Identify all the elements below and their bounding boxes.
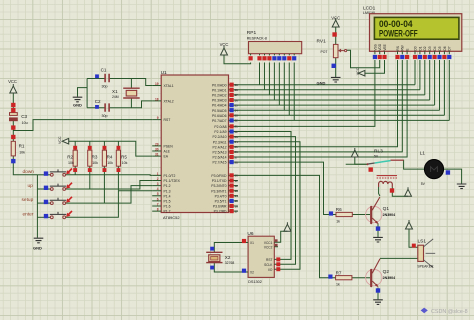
svg-text:LS1: LS1 (418, 239, 427, 245)
svg-text:7: 7 (157, 202, 159, 206)
svg-text:15: 15 (235, 199, 239, 203)
svg-text:VCC: VCC (220, 42, 229, 47)
svg-text:CSDN @slce-8: CSDN @slce-8 (431, 309, 468, 315)
svg-text:16: 16 (235, 204, 239, 208)
svg-text:P1.3: P1.3 (164, 189, 171, 193)
svg-text:POWER-OFF: POWER-OFF (379, 29, 418, 39)
wire: XTAL1 net (87, 78, 105, 80)
node squares on reset rail (11, 103, 15, 107)
svg-text:10k: 10k (19, 150, 25, 154)
svg-text:P0.0/AD0: P0.0/AD0 (212, 83, 227, 87)
svg-text:RP1: RP1 (247, 30, 257, 36)
wire: R7 to Q2 base (352, 277, 370, 279)
wire: P0/LCD data bus rows (238, 84, 415, 86)
Q1 emitter node square (376, 226, 380, 230)
svg-text:VCC1: VCC1 (264, 241, 273, 245)
watermark (421, 308, 468, 315)
svg-text:29: 29 (155, 142, 159, 146)
svg-text:XTAL1: XTAL1 (164, 84, 174, 88)
wire: R5 bottom to enter row (117, 166, 119, 191)
wire: VCC terminal to pull-up rail and EA pin (69, 141, 153, 156)
svg-text:VCC: VCC (331, 16, 340, 21)
L1 node square (446, 170, 450, 174)
svg-text:P3.6/WR: P3.6/WR (213, 205, 227, 209)
svg-text:10k: 10k (68, 161, 74, 165)
svg-text:10u: 10u (22, 121, 28, 125)
wire: crystal X1 legs (130, 79, 132, 89)
svg-text:RW: RW (401, 45, 405, 50)
U1 right pin stubs (229, 85, 238, 211)
resistor R6 (336, 207, 353, 223)
svg-text:down: down (23, 169, 35, 175)
wire: relay coil right to VCC (392, 187, 408, 196)
VCC (RP1) (221, 46, 228, 55)
svg-text:VCC: VCC (356, 67, 360, 75)
svg-text:P2.4/A12: P2.4/A12 (213, 145, 227, 149)
U1 left pin stubs (152, 86, 161, 212)
svg-text:C2: C2 (95, 99, 101, 104)
wire: R1 bottom to button ground rail (13, 156, 37, 175)
svg-text:P2.1/A9: P2.1/A9 (214, 130, 226, 134)
LCD pin stubs and state squares (375, 51, 449, 54)
svg-text:39: 39 (235, 83, 239, 87)
svg-text:RV1: RV1 (317, 39, 327, 45)
svg-text:D0: D0 (413, 46, 417, 50)
svg-text:4: 4 (157, 187, 159, 191)
U6 pin stubs (242, 242, 281, 272)
svg-text:2: 2 (157, 177, 159, 181)
R7 node square (328, 275, 332, 279)
wire: up button to P1.1 (66, 181, 153, 190)
VCC (relay coil) (405, 187, 412, 196)
svg-text:27: 27 (235, 155, 239, 159)
svg-text:P2.7/A15: P2.7/A15 (213, 161, 227, 165)
svg-text:X1: X1 (112, 89, 118, 94)
svg-text:VEE: VEE (383, 44, 387, 50)
svg-text:D2: D2 (423, 46, 427, 50)
potentiometer RV1 (317, 39, 347, 58)
resistor R3 (88, 150, 92, 166)
svg-text:X2: X2 (225, 255, 231, 260)
wire: LCD VEE to VCC terminal (365, 60, 385, 73)
ground (oscillator) (73, 97, 83, 102)
VCC (relay switch) (351, 148, 358, 157)
U6 pin squares (242, 239, 246, 243)
crystal X2 32768Hz (206, 252, 234, 264)
resistor R5 (116, 150, 120, 166)
svg-text:X2: X2 (250, 271, 254, 275)
svg-text:enter: enter (23, 211, 34, 217)
svg-text:10k: 10k (107, 161, 113, 165)
svg-text:5V: 5V (374, 155, 379, 159)
button "down" (SW1) (23, 169, 73, 177)
svg-text:P0.2/AD2: P0.2/AD2 (212, 94, 227, 98)
svg-text:24M: 24M (112, 95, 119, 99)
capacitor C1 (101, 68, 110, 89)
wire: L1 right to ground (444, 169, 462, 184)
wire: setup button to P1.2 (66, 186, 153, 204)
button "enter" (SW4) (23, 211, 73, 219)
svg-text:31: 31 (155, 153, 159, 157)
wire: speaker bottom to Q2 collector (380, 257, 418, 259)
svg-text:26: 26 (235, 150, 239, 154)
resistor R7 (336, 270, 352, 286)
wire: relay VCC to switch common (355, 157, 367, 164)
svg-text:RST: RST (266, 258, 272, 262)
wire: X2 crystal to DS1302 X1/X2 pins (214, 243, 249, 253)
svg-text:D6: D6 (443, 46, 447, 50)
VCC (reset circuit) (10, 84, 17, 93)
ground (buttons) (34, 238, 44, 243)
svg-text:D3: D3 (428, 46, 432, 50)
svg-text:EA: EA (164, 155, 169, 159)
wire: RV1 top to VCC (335, 27, 337, 44)
svg-text:P0.1/AD1: P0.1/AD1 (212, 88, 227, 92)
svg-text:P1.0/T2: P1.0/T2 (164, 174, 176, 178)
svg-text:VCC2: VCC2 (264, 246, 273, 250)
wire: down button to P1.0 (66, 174, 153, 177)
svg-text:VDD: VDD (378, 43, 382, 50)
svg-text:30: 30 (155, 147, 159, 151)
svg-text:10k: 10k (92, 161, 98, 165)
svg-text:POT: POT (321, 50, 328, 54)
svg-text:R6: R6 (336, 207, 342, 212)
svg-text:DS1302: DS1302 (248, 280, 262, 284)
transistor Q1 2N3904 (366, 197, 396, 224)
svg-text:P0.7/AD7: P0.7/AD7 (212, 119, 227, 123)
wire: speaker VCC feed (409, 229, 418, 247)
lcd LCD1 LM016L (363, 6, 462, 52)
wire: P3.0 to R7 (speaker driver) (238, 175, 336, 277)
wire: R3 bottom to up row (89, 166, 91, 189)
resistor R1 (11, 141, 25, 156)
svg-text:37: 37 (235, 93, 239, 97)
svg-text:P0.4/AD4: P0.4/AD4 (212, 104, 227, 108)
wire: RST net from R1 top to U1 RST pin (13, 120, 152, 131)
VCC (DS1302) (284, 222, 291, 231)
wire: ground stubs to buttons (37, 174, 50, 176)
wire: Q2 emitter to ground (377, 288, 379, 300)
svg-text:9: 9 (157, 116, 159, 120)
svg-text:25: 25 (235, 145, 239, 149)
svg-text:18: 18 (155, 97, 159, 101)
svg-text:17: 17 (235, 209, 239, 213)
svg-text:RS: RS (396, 46, 400, 50)
svg-text:P1.4: P1.4 (164, 194, 171, 198)
wire: C3 to R1 (12, 121, 14, 142)
wire: LCD VSS down to P2.0 row (238, 60, 375, 126)
svg-text:XTAL2: XTAL2 (164, 100, 174, 104)
wire: RP1 pin drops to data bus (259, 63, 261, 85)
VCC (speaker) (406, 220, 413, 229)
svg-text:GND: GND (73, 103, 82, 108)
svg-text:ALE: ALE (164, 150, 171, 154)
X2 node squares (210, 247, 214, 251)
relay RL3 (346, 149, 404, 188)
svg-text:1k: 1k (336, 282, 340, 286)
svg-text:P1.2: P1.2 (164, 184, 171, 188)
svg-text:AT89C52: AT89C52 (163, 215, 180, 220)
svg-text:5V: 5V (421, 182, 426, 186)
RL3 node squares (369, 167, 373, 171)
ground (Q2) (373, 300, 383, 305)
resistor R4 (102, 150, 106, 166)
R6 node square (329, 211, 333, 215)
svg-text:up: up (28, 184, 34, 189)
svg-text:13: 13 (235, 189, 239, 193)
svg-text:24: 24 (235, 140, 239, 144)
svg-text:P3.5/T1: P3.5/T1 (215, 200, 227, 204)
svg-text:2N3904: 2N3904 (383, 276, 396, 280)
svg-text:32: 32 (235, 119, 239, 123)
svg-text:C3: C3 (21, 114, 27, 119)
wire: enter button to P1.3 (66, 191, 119, 218)
node square C2 (95, 105, 99, 109)
svg-text:36: 36 (235, 98, 239, 102)
svg-text:10: 10 (235, 174, 239, 178)
wire: rail branch to ground (78, 88, 88, 97)
svg-text:R3: R3 (92, 155, 98, 160)
svg-text:X1: X1 (250, 241, 254, 245)
svg-text:P2.2/A10: P2.2/A10 (213, 135, 227, 139)
svg-text:P2.5/A13: P2.5/A13 (213, 151, 227, 155)
svg-text:Q2: Q2 (383, 269, 390, 275)
VCC terminal (pull-up rail) (62, 138, 68, 144)
svg-text:RST: RST (164, 118, 171, 122)
wire: oscillator rail C1/C2 left (86, 79, 88, 108)
svg-text:38: 38 (235, 88, 239, 92)
wire: RP1 pin1 to VCC (224, 55, 251, 64)
svg-text:3: 3 (157, 182, 159, 186)
svg-text:P3.4/T0: P3.4/T0 (215, 194, 227, 198)
resistor R2 (73, 150, 77, 166)
ground (L1) (457, 184, 467, 189)
wire: R2 bottom to down row (74, 166, 76, 175)
wire: DS1302 VCC1 to VCC (278, 231, 287, 242)
wire: R2-R5 tops to rail (74, 141, 76, 150)
svg-text:VSS: VSS (373, 44, 377, 50)
speaker LS1 (417, 239, 435, 269)
svg-text:E: E (406, 48, 410, 50)
svg-text:R1: R1 (19, 144, 25, 149)
wire: LCD VDD to RV1 wiper (347, 50, 380, 68)
svg-text:D5: D5 (438, 46, 442, 50)
svg-text:P3.7/RD: P3.7/RD (214, 210, 227, 214)
svg-text:P2.3/A11: P2.3/A11 (213, 140, 227, 144)
VCC terminal (LCD VEE net) (358, 70, 365, 76)
capacitor C2 (95, 99, 109, 118)
RV1 node squares (332, 32, 336, 36)
svg-text:VCC: VCC (58, 136, 62, 144)
svg-text:Q1: Q1 (383, 206, 390, 212)
svg-text:19: 19 (155, 82, 159, 86)
svg-text:10k: 10k (122, 161, 128, 165)
button "setup" (SW3) (22, 197, 73, 205)
svg-text:5: 5 (157, 192, 159, 196)
wire: LCD RS/RW/E down to P2 rows (238, 60, 398, 147)
mcu U1 AT89C52 (161, 70, 229, 220)
svg-text:P0.5/AD5: P0.5/AD5 (212, 109, 227, 113)
svg-text:GND: GND (317, 81, 326, 86)
svg-text:33: 33 (235, 114, 239, 118)
svg-text:P0.6/AD6: P0.6/AD6 (212, 114, 227, 118)
RP1 pins 2-9 state squares (260, 54, 295, 56)
svg-text:2N3904: 2N3904 (383, 213, 396, 217)
svg-text:P2.0/A8: P2.0/A8 (214, 125, 226, 129)
Q2 emitter node square (376, 288, 380, 292)
wire: relay NO contact to motor L1 (404, 160, 425, 169)
svg-text:14: 14 (235, 194, 239, 198)
svg-text:22: 22 (235, 130, 239, 134)
wire: relay coil left to Q1 collector (379, 187, 380, 196)
svg-text:32768: 32768 (225, 261, 235, 265)
wire: VCC to C3/R1 reset rail (12, 93, 14, 113)
wire: P2.1-P2.3 to DS1302 RST/SCLK/IO (238, 132, 291, 260)
svg-text:setup: setup (22, 197, 34, 203)
wire: button ground rail (36, 175, 38, 238)
svg-text:I/O: I/O (268, 268, 273, 272)
svg-text:00-00-04: 00-00-04 (379, 19, 413, 29)
svg-text:L1: L1 (420, 151, 426, 157)
svg-text:R5: R5 (121, 155, 127, 160)
transistor Q2 2N3904 (366, 259, 396, 287)
svg-text:D1: D1 (418, 46, 422, 50)
svg-text:P1.6: P1.6 (164, 205, 171, 209)
svg-text:11: 11 (235, 179, 239, 183)
motor L1 (420, 151, 444, 187)
svg-text:P1.1/T2EX: P1.1/T2EX (164, 179, 181, 183)
svg-text:6: 6 (157, 197, 159, 201)
wire: R6 to Q1 base (352, 214, 370, 216)
svg-text:P3.3/INT1: P3.3/INT1 (211, 189, 226, 193)
svg-text:P1.5: P1.5 (164, 200, 171, 204)
button "up" (SW2) (28, 183, 73, 191)
svg-text:1k: 1k (336, 219, 340, 223)
svg-text:12: 12 (235, 184, 239, 188)
svg-text:8: 8 (157, 208, 159, 212)
rtc U6 DS1302 (247, 231, 274, 284)
svg-text:C1: C1 (101, 68, 107, 73)
svg-text:28: 28 (235, 160, 239, 164)
svg-text:R4: R4 (107, 155, 113, 160)
wire: RV1 bottom to ground (335, 58, 337, 77)
crystal X1 (112, 88, 140, 99)
wire: XTAL2 net (87, 107, 105, 109)
speaker node square (412, 244, 416, 248)
ground (Q1) (373, 237, 383, 242)
svg-text:RESPACK-8: RESPACK-8 (247, 37, 267, 41)
svg-text:P2.6/A14: P2.6/A14 (213, 156, 227, 160)
svg-text:PSEN: PSEN (164, 145, 174, 149)
svg-text:P3.0/RXD: P3.0/RXD (211, 174, 227, 178)
svg-text:R7: R7 (336, 270, 342, 275)
wire: P2.7 to R6 (relay driver) (238, 162, 336, 214)
svg-text:D7: D7 (448, 46, 452, 50)
wire: LCD D0-D7 drops to data bus (414, 60, 416, 85)
node square C1 (95, 74, 99, 78)
svg-text:23: 23 (235, 135, 239, 139)
ground (RV1) (331, 77, 341, 82)
capacitor C3 (10, 113, 28, 125)
svg-text:SCLK: SCLK (264, 263, 273, 267)
svg-text:35: 35 (235, 103, 239, 107)
svg-text:R2: R2 (67, 155, 73, 160)
svg-text:SPEAKER: SPEAKER (417, 265, 434, 269)
svg-text:GND: GND (33, 246, 42, 251)
svg-text:D4: D4 (433, 46, 437, 50)
svg-text:30p: 30p (102, 114, 108, 118)
svg-text:P3.2/INT0: P3.2/INT0 (211, 184, 226, 188)
svg-text:34: 34 (235, 109, 239, 113)
svg-text:1: 1 (157, 172, 159, 176)
svg-text:VCC: VCC (8, 79, 17, 84)
svg-text:21: 21 (235, 125, 239, 129)
VCC (RV1) (332, 18, 339, 27)
svg-text:30p: 30p (102, 85, 108, 89)
wire: R4 bottom to setup row (103, 166, 105, 203)
svg-text:P3.1/TXD: P3.1/TXD (212, 179, 227, 183)
RP1 pin 1 state square (250, 54, 252, 56)
svg-text:P1.7: P1.7 (164, 210, 171, 214)
wire: Q1 emitter to ground (377, 224, 379, 238)
resistor pack RP1 RESPACK-8 (247, 30, 302, 54)
svg-text:P0.3/AD3: P0.3/AD3 (212, 99, 227, 103)
